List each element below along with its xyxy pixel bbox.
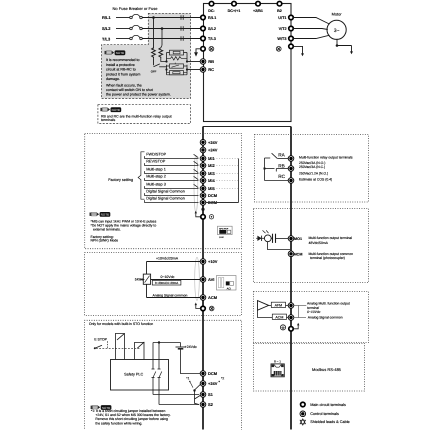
svg-text:Multi-function relay output te: Multi-function relay output terminals [299,156,353,160]
shield ground terminal analog [201,306,206,311]
jumper +24V to S1 S2 [195,384,201,390]
breaker on S/L2 [130,27,133,30]
note tag RB/RC [100,107,121,112]
terminal +10V [200,259,206,265]
resistor on S/L2 branch [159,48,163,59]
wire +10V [147,261,201,263]
terminal W/T3 [289,36,294,41]
svg-text:5KΩ: 5KΩ [135,278,142,282]
wire STO channel loop 2 [135,342,144,359]
svg-text:Multi-step 3: Multi-step 3 [146,183,166,187]
drive main power block U1 outline [204,4,292,122]
legend control terminals [300,411,306,417]
svg-text:It is recommended to: It is recommended to [106,58,140,62]
svg-text:Digital Signal Common: Digital Signal Common [146,190,185,194]
terminal DC- [209,1,214,6]
svg-text:Multi-step 2: Multi-step 2 [146,175,166,179]
contact OFF blade [154,64,160,67]
wire battery to DCM [181,349,201,374]
op-amp A1 [258,301,269,311]
wire combo to RC terminal [187,69,201,71]
wire breaker to T/L3 terminal [142,38,201,40]
svg-text:RC: RC [278,174,285,179]
screw symbol left PE [209,46,214,51]
svg-text:S2: S2 [208,402,214,407]
svg-text:SINK: SINK [219,236,224,239]
wire W/T3 to motor [293,35,329,38]
svg-text:Analog Signal common: Analog Signal common [153,293,188,297]
wire pot top to +10V wire [146,262,148,275]
wire resistor to OFF contact [153,58,155,65]
junction RB combo right [186,60,188,62]
terminal RB relay [288,166,294,172]
terminal MCM [288,251,294,257]
note box RB and RC [98,105,191,124]
svg-text:*2: *2 [221,377,224,381]
svg-text:Motor: Motor [332,12,343,17]
terminal V/T2 [289,26,294,31]
contact blade feedback 1 [153,372,156,378]
link to E STOP label dashed [107,341,109,348]
AVI/ACI switch icon [217,276,237,291]
svg-text:NPN (SINK) Mode: NPN (SINK) Mode [91,239,119,243]
svg-text:external terminals.: external terminals. [93,228,121,232]
junction RB combo left [165,60,167,62]
svg-text:Modbus RS-485: Modbus RS-485 [312,367,342,372]
MC contact box (RC branch) [170,64,184,68]
factory setting brace [138,152,144,199]
wire DCM input [144,202,198,204]
svg-text:protect it from system: protect it from system [106,72,140,76]
mechanical link dashed [96,347,141,349]
wire STO channel loop 1 [115,334,124,360]
breaker on R/L1 [130,16,133,19]
terminal MI2 [200,163,206,169]
wire MI5 input [144,188,198,190]
svg-text:Only for models with built-in: Only for models with built-in STO functi… [89,322,153,326]
control board left bus [202,127,204,430]
terminal RC [200,67,206,73]
relay RB stub [265,168,275,170]
wire DCM input [144,195,198,197]
svg-text:install a protective: install a protective [106,63,135,67]
terminal PE left [201,47,206,52]
section box analog inputs [85,253,242,316]
terminal S2 [200,402,206,408]
terminal PE right [289,44,294,49]
svg-text:48Vdc/50mA: 48Vdc/50mA [309,241,329,245]
svg-text:S/L2: S/L2 [208,27,216,31]
terminal +2/B1 [256,1,261,6]
svg-text:damage.: damage. [106,77,120,81]
svg-text:ACI: ACI [227,287,232,290]
svg-text:OFF: OFF [151,70,157,74]
wire U/T1 to motor [293,18,329,25]
wire V/T2 to motor [293,29,328,30]
terminal S1 [200,392,206,398]
terminal RC relay [288,178,294,184]
svg-text:Analog Signal common: Analog Signal common [308,316,343,320]
section box digital inputs [85,134,242,249]
wire AFM [269,305,289,307]
wire amp to ACM [258,310,289,317]
varistor ZL (RB branch) [167,57,188,60]
photocoupler U2 [257,236,261,241]
terminal +24V (2) [200,147,206,153]
section box STO [85,320,242,430]
svg-text:+10Vdc/20mA: +10Vdc/20mA [156,257,179,261]
svg-text:NOTE: NOTE [112,108,120,112]
relay common rail [264,158,266,181]
svg-text:Factory setting: Factory setting [108,178,133,182]
hook arrow digital shield [196,213,201,217]
safety PLC box [111,360,169,391]
wire R/L1 to breaker [116,17,130,19]
svg-text:REV/STOP: REV/STOP [146,160,166,164]
svg-text:250Vac/3A (N.C.): 250Vac/3A (N.C.) [299,165,325,169]
svg-text:R/L1: R/L1 [102,15,111,20]
RC combo rails [166,65,168,75]
svg-text:the power and protect the powe: the power and protect the power system. [106,93,171,97]
svg-text:RC: RC [208,67,214,72]
svg-text:terminals: terminals [101,118,115,122]
wire breaker to R/L1 terminal [142,17,201,19]
contact blade feedback 2 [159,372,162,378]
svg-text:When fault occurs, the: When fault occurs, the [106,83,142,87]
legend main circuit terminals [301,402,306,407]
junction motor ground [336,44,339,47]
wire feedback2 to S2 [159,404,199,406]
svg-text:NOTE: NOTE [101,213,109,217]
control board right bus [290,127,292,430]
wire motor to ground [337,39,352,46]
svg-text:the safety function while wiri: the safety function while wiring. [95,421,142,425]
svg-text:S/L2: S/L2 [102,26,111,31]
svg-text:DC-: DC- [208,9,215,13]
wire MI2 input [144,165,198,167]
wire pot bottom to common [146,284,148,297]
hook arrow analog out [293,325,298,329]
junction RC combo right [186,68,188,70]
wire photocoupler to MCM [268,242,291,250]
svg-text:circuit at RB-RC to: circuit at RB-RC to [106,68,136,72]
terminal RB [200,59,206,65]
svg-text:Multi-function output terminal: Multi-function output terminal [309,236,353,240]
terminal +24V sto [200,381,206,387]
wire photocoupler to MO1 [276,238,289,240]
svg-text:R/L1: R/L1 [208,16,216,20]
terminal RA [288,156,294,162]
svg-text:0~20mA/4~20mA: 0~20mA/4~20mA [155,281,178,285]
svg-text:ACM: ACM [208,295,218,300]
breaker on T/L3 [130,37,133,40]
svg-text:Estimate at COS (0.4): Estimate at COS (0.4) [299,178,332,182]
wire RA [278,158,289,160]
svg-text:U/T1: U/T1 [278,16,286,20]
MC coil box (RC branch) [170,71,184,75]
svg-text:Multi-function output common: Multi-function output common [309,252,354,256]
junction top rail [158,341,160,343]
terminal +24V (1) [200,140,206,146]
leader AFM [294,305,307,307]
ground arrow motor [351,46,353,52]
svg-text:+24V: +24V [208,148,218,153]
svg-text:contact will switch ON to shut: contact will switch ON to shut [106,88,153,92]
terminal ACM analog-in [200,295,206,301]
svg-text:Shielded leads & Cable: Shielded leads & Cable [310,420,349,424]
svg-text:NPN PNP: NPN PNP [219,227,229,230]
filter bars on T/L3 [180,36,182,41]
svg-text:RB: RB [208,59,214,64]
terminal MI3 [200,171,206,177]
label box AFM [271,302,285,307]
svg-text:0~10Vdc: 0~10Vdc [307,310,321,314]
svg-text:DCM: DCM [208,193,218,198]
wire R/L1 junction down [153,18,155,49]
contact blade loop 2 [137,342,144,348]
svg-text:250Vac/1.2A (N.O.): 250Vac/1.2A (N.O.) [299,171,328,175]
svg-text:+24V: +24V [208,381,218,386]
screw symbol analog [209,306,214,311]
svg-text:E STOP: E STOP [94,337,107,341]
wire STO feedback 1 [152,343,154,370]
terminal U/T1 [289,15,294,20]
terminal S/L2 [201,26,206,31]
svg-text:Control terminals: Control terminals [310,412,339,416]
shield ground terminal analog out [289,327,294,332]
battery +24Vdc [180,343,182,347]
note tag STO [91,405,112,410]
wire STO feedback 2 [158,343,160,370]
terminal AVI [200,277,206,283]
svg-text:MO1: MO1 [294,237,302,241]
wire PE terminal to ground [293,46,302,48]
note tag MI5 [90,212,111,217]
RB combo rails [166,53,168,62]
svg-text:Safety PLC: Safety PLC [124,373,143,377]
junction RC combo left [165,68,167,70]
wire OFF to RC combo [159,66,166,68]
svg-text:T/L3: T/L3 [102,36,111,41]
earth circle digital [209,215,213,219]
junction relay RB [264,168,266,170]
svg-text:Main circuit terminals: Main circuit terminals [310,403,346,407]
svg-text:AVI: AVI [208,277,214,282]
terminal MO1 [288,236,294,242]
wire resistor to RB combo [161,58,167,61]
junction below DCM [201,208,204,211]
svg-text:8 ~ 1: 8 ~ 1 [274,359,281,363]
filter bars on R/L1 [180,15,182,20]
terminal T/L3 [201,36,206,41]
E-stop switch [94,347,96,349]
svg-text:+24V: +24V [208,140,218,145]
shielded cable oval digital [194,156,198,213]
label box ACM [272,314,286,319]
terminal DCM [200,193,206,199]
control board block top edge [203,126,291,128]
svg-text:terminal (photocoupler): terminal (photocoupler) [310,256,345,260]
svg-text:T/L3: T/L3 [208,37,216,41]
section box relay output [255,135,369,203]
section box MO1 output [254,209,369,283]
terminal MI4 [200,178,206,184]
junction on R/L1 [152,16,155,19]
svg-text:ACM: ACM [275,315,283,319]
svg-text:NOTE: NOTE [116,51,124,55]
legend shielded leads [300,419,305,424]
resistor on R/L1 branch [152,48,156,59]
terminal AFM [288,303,294,309]
contact blade loop 1 [117,333,125,340]
section box analog output [254,292,369,343]
terminal MI1 [200,156,206,162]
label box 0~20mA/4~20mA [152,280,181,285]
wire ACM [147,297,201,299]
NPN/PNP switch icon [218,226,233,234]
potentiometer VR1 5K [143,274,150,284]
shield ground terminal digital [201,215,206,220]
wire AVI [151,279,201,281]
svg-text:+2/B1: +2/B1 [253,9,263,13]
svg-text:*1: *1 [186,377,189,381]
terminal DCM [200,200,206,206]
svg-text:RB: RB [278,163,285,168]
sink/source wiring to DCM [206,158,239,160]
svg-text:DCM: DCM [208,371,218,376]
motor M1 [327,20,346,39]
svg-text:3~: 3~ [334,28,340,34]
terminal MI5 [200,186,206,192]
svg-text:MCM: MCM [294,252,303,256]
earth circle analog out [280,325,285,330]
RJ45 connector J1 [271,364,284,377]
svg-text:0~10Vdc: 0~10Vdc [161,275,175,279]
terminal DC+/+1 [232,1,237,6]
hook arrow analog shield [196,305,201,309]
svg-text:S1: S1 [208,392,214,397]
wire T/L3 to breaker [116,38,130,40]
svg-text:FWD/STOP: FWD/STOP [146,153,166,157]
svg-text:DC+/+1: DC+/+1 [228,9,241,13]
section box modbus [254,344,365,392]
svg-text:Multi-step 1: Multi-step 1 [146,168,166,172]
svg-text:+10V: +10V [208,259,218,264]
svg-text:AFM: AFM [275,303,283,307]
relay contact RA blade [265,157,271,159]
terminal R/L1 [201,15,206,20]
surge absorber SA (RB branch) [170,50,184,55]
wire MI1 input [144,158,198,160]
wire combo to RB terminal [187,61,201,63]
wire feedback1 to S1 [153,394,199,396]
note tag (protective circuit) [105,50,126,55]
svg-text:No Fuse Breaker or Fuse: No Fuse Breaker or Fuse [113,6,159,11]
svg-text:Digital Signal Common: Digital Signal Common [146,197,185,201]
ground arrow right PE [302,48,304,54]
svg-text:W/T3: W/T3 [277,37,286,41]
wire RC [265,180,289,182]
wire MI4 input [144,180,198,182]
terminal B2 [277,1,282,6]
protective-circuit note shaded area [102,13,191,98]
filter bars on S/L2 [180,26,182,31]
terminal ACM analog-out [288,315,294,321]
screw symbol right PE [276,46,281,51]
wire MI3 input [144,173,198,175]
wire top rail STO [153,342,181,344]
shielded cable oval analog [195,257,200,300]
svg-text:V/T2: V/T2 [279,27,287,31]
ground arrow left PE [196,49,201,52]
svg-text:RA: RA [278,152,285,157]
wire breaker to S/L2 terminal [142,28,201,30]
svg-text:B2: B2 [277,9,282,13]
wire RB [276,168,288,170]
svg-text:+24Vdc: +24Vdc [185,345,197,349]
wire S/L2 to breaker [116,28,130,30]
junction on S/L2 [161,27,164,30]
terminal DCM sto [200,371,206,377]
